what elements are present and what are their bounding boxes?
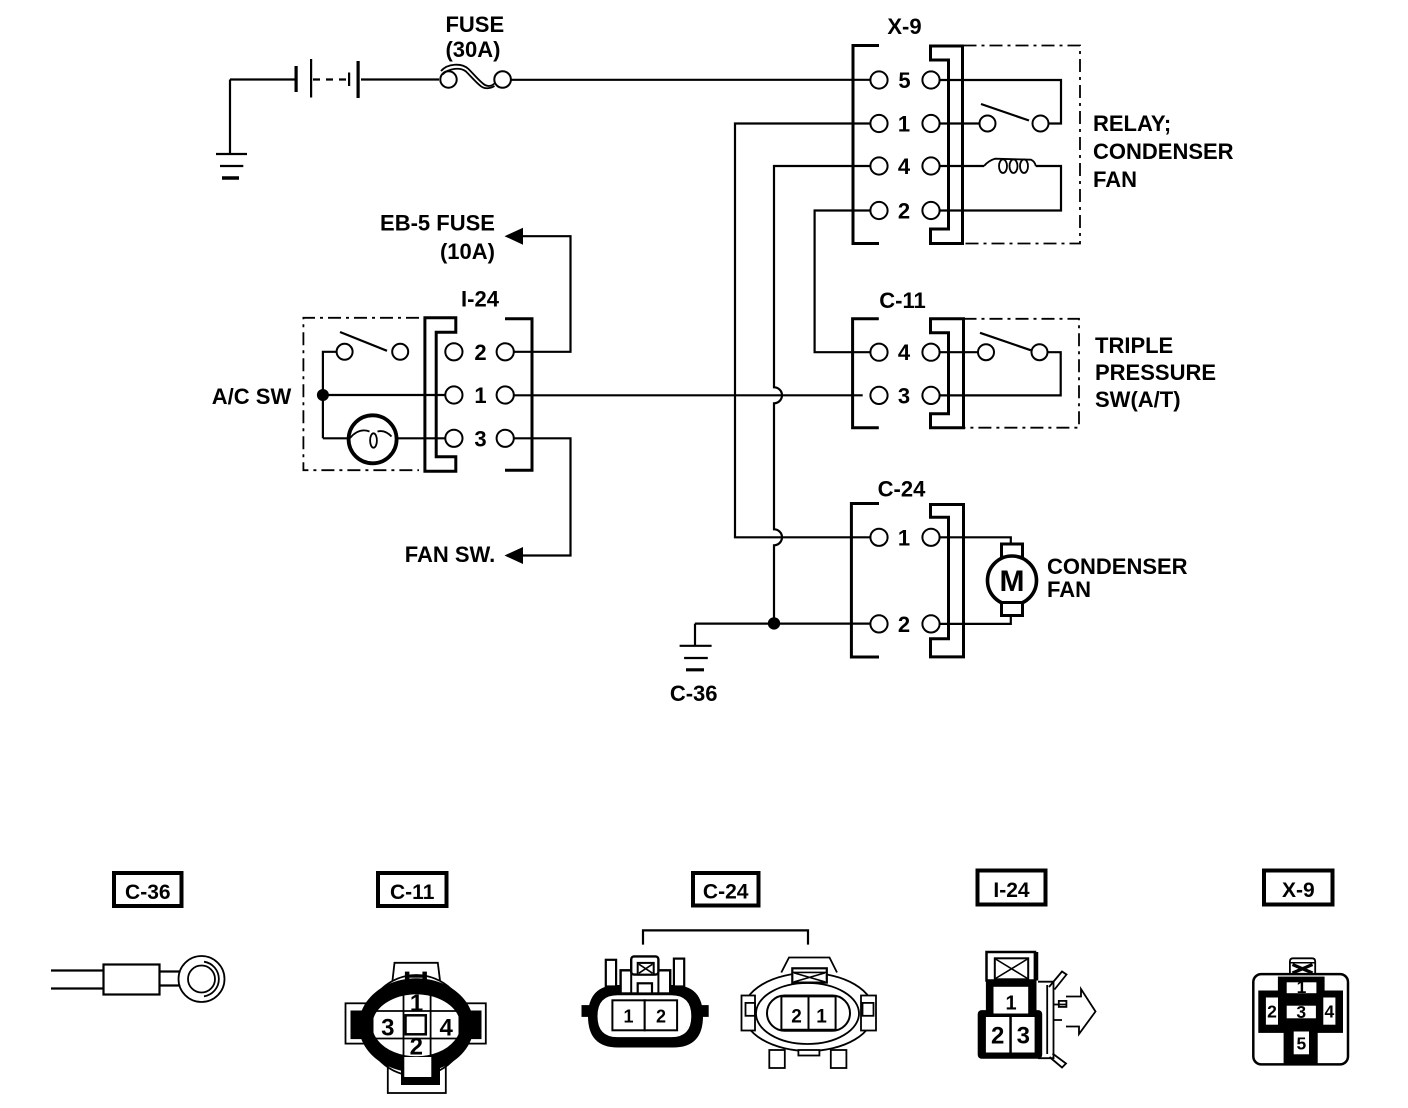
wire relay pin1 to switch — [940, 122, 979, 124]
C-24 female connector face — [582, 956, 709, 1047]
arrow FAN SW — [505, 547, 524, 564]
C-11 connector face — [346, 963, 486, 1093]
svg-text:2: 2 — [1267, 1002, 1277, 1022]
connector C-24 female bracket — [851, 504, 879, 658]
junction node C-36 — [768, 617, 780, 629]
text CONDENSER FAN — [1047, 554, 1188, 602]
I-24 female bracket — [425, 318, 456, 471]
A/C SW box dash-dot — [303, 318, 419, 470]
svg-text:(10A): (10A) — [440, 239, 495, 264]
motor bottom terminal — [1002, 603, 1023, 616]
svg-text:TRIPLE: TRIPLE — [1095, 333, 1173, 358]
svg-text:RELAY;: RELAY; — [1093, 111, 1171, 136]
svg-text:CONDENSER: CONDENSER — [1047, 554, 1188, 579]
C-24 label box — [693, 873, 759, 906]
C-24 male connector face — [742, 958, 877, 1069]
svg-text:4: 4 — [898, 340, 911, 365]
wire X-9 pin2 to C-11 pin4 — [815, 211, 871, 353]
wire I-24 pin1 to C-11 pin3 — [514, 394, 863, 396]
connector C-11 male bracket — [931, 319, 964, 428]
wire ground to C-24 pin2 — [695, 622, 870, 624]
relay coil — [984, 159, 1036, 173]
svg-text:1: 1 — [1297, 977, 1307, 997]
svg-text:C-36: C-36 — [125, 881, 171, 904]
wire bus to lamp — [323, 437, 349, 439]
svg-text:2: 2 — [474, 340, 486, 365]
pressure switch box dash-dot — [964, 319, 1080, 428]
pressure switch contact right — [1032, 344, 1048, 360]
A/C switch contact left — [337, 344, 353, 360]
wire lamp to I-24 pin3 — [397, 437, 446, 439]
svg-text:CONDENSER: CONDENSER — [1093, 139, 1234, 164]
X-9 connector face — [1253, 958, 1348, 1064]
wire A/C switch to left bus — [323, 352, 337, 439]
C-11 pin 3 — [870, 383, 939, 408]
wire C-24 pin2 to motor — [940, 617, 1011, 624]
junction node A/C SW — [317, 389, 329, 401]
I-24 connector face — [978, 952, 1096, 1068]
I-24 pin 3 — [445, 426, 514, 451]
svg-text:2: 2 — [991, 1023, 1004, 1050]
svg-text:3: 3 — [1017, 1023, 1030, 1050]
connector X-9 female bracket — [853, 46, 879, 244]
X-9 pin 4 — [870, 154, 939, 179]
I-24 male bracket — [505, 319, 532, 470]
wire I-24 pin3 to FAN SW — [514, 438, 571, 555]
wire fuse to X-9 pin 5 — [511, 79, 871, 81]
svg-text:3: 3 — [474, 426, 486, 451]
svg-text:1: 1 — [1005, 993, 1016, 1015]
connector C-24 male bracket — [931, 505, 964, 657]
ground battery — [216, 80, 247, 179]
I-24 label box — [978, 871, 1046, 905]
condenser fan motor M — [988, 556, 1037, 605]
svg-text:1: 1 — [816, 1007, 827, 1028]
svg-text:4: 4 — [898, 154, 911, 179]
X-9 pin 1 — [870, 112, 939, 137]
connector C-11 female bracket — [853, 319, 879, 428]
X-9 label box — [1264, 871, 1333, 905]
svg-text:C-11: C-11 — [390, 881, 435, 904]
fuse FUSE 30A — [440, 65, 511, 89]
wire node to I-24 pin1 — [323, 394, 446, 396]
C-11 label box — [378, 873, 447, 906]
text TRIPLE PRESSURE SW(A/T) — [1095, 333, 1216, 412]
svg-text:EB-5 FUSE: EB-5 FUSE — [380, 211, 495, 236]
svg-text:PRESSURE: PRESSURE — [1095, 360, 1216, 385]
X-9 pin 2 — [870, 199, 939, 224]
relay switch blade — [981, 104, 1029, 121]
battery B1 — [295, 59, 360, 98]
wire I-24 pin2 to EB-5 fuse — [514, 236, 571, 352]
svg-text:3: 3 — [898, 383, 910, 408]
relay switch contact left — [980, 116, 996, 132]
connector X-9 male bracket — [931, 46, 963, 244]
svg-text:1: 1 — [898, 112, 910, 137]
A/C switch blade — [340, 332, 387, 351]
relay box dash-dot — [964, 46, 1081, 244]
C-24 pin 1 — [870, 525, 939, 550]
svg-text:C-24: C-24 — [703, 881, 749, 904]
svg-text:5: 5 — [1297, 1033, 1307, 1053]
wire X-9 pin1 to C-24 pin1 — [735, 124, 870, 538]
svg-text:FAN SW.: FAN SW. — [405, 542, 495, 567]
C-36 ring terminal — [51, 956, 225, 1002]
svg-text:SW(A/T): SW(A/T) — [1095, 387, 1181, 412]
X-9 pin 5 — [870, 68, 939, 93]
pressure switch blade — [980, 333, 1031, 351]
svg-text:1: 1 — [623, 1006, 633, 1026]
svg-text:5: 5 — [898, 68, 910, 93]
wire relay pin4 to coil — [940, 165, 984, 167]
svg-text:3: 3 — [1296, 1002, 1306, 1022]
arrow EB-5 — [505, 228, 524, 245]
A/C switch contact right — [392, 344, 408, 360]
svg-text:2: 2 — [410, 1034, 423, 1061]
svg-text:C-36: C-36 — [670, 681, 718, 706]
lamp A/C indicator — [349, 415, 397, 463]
C-36 label box — [114, 873, 182, 906]
relay switch contact right — [1033, 116, 1049, 132]
svg-text:I-24: I-24 — [461, 287, 500, 312]
svg-text:(30A): (30A) — [445, 37, 500, 62]
wire battery to fuse — [361, 78, 439, 80]
pressure switch contact left — [978, 344, 994, 360]
svg-text:4: 4 — [1325, 1002, 1335, 1022]
svg-text:FAN: FAN — [1093, 167, 1137, 192]
svg-text:FUSE: FUSE — [445, 12, 504, 37]
wire C-24 pin1 to motor — [940, 537, 1011, 544]
svg-text:2: 2 — [898, 612, 910, 637]
svg-text:I-24: I-24 — [993, 879, 1030, 902]
svg-text:3: 3 — [381, 1015, 394, 1042]
svg-text:1: 1 — [898, 525, 910, 550]
svg-text:4: 4 — [440, 1015, 454, 1042]
svg-text:1: 1 — [474, 383, 486, 408]
wire C-11 pin4 to switch — [940, 351, 978, 353]
svg-text:X-9: X-9 — [887, 14, 921, 39]
wire X-9 pin4 to ground junction — [774, 166, 870, 623]
svg-text:C-24: C-24 — [878, 477, 926, 502]
svg-text:2: 2 — [791, 1007, 802, 1028]
C-11 pin 4 — [870, 340, 939, 365]
ground C-36 — [680, 624, 712, 670]
svg-text:FAN: FAN — [1047, 577, 1091, 602]
svg-text:2: 2 — [898, 199, 910, 224]
svg-text:A/C SW: A/C SW — [212, 384, 292, 409]
wire relay coil to pin2 — [940, 166, 1061, 211]
wire relay pin5 to switch contact — [940, 80, 1061, 124]
C-24 bracket line — [643, 930, 808, 944]
svg-text:2: 2 — [656, 1006, 666, 1026]
text RELAY; CONDENSER FAN — [1093, 111, 1234, 192]
svg-text:C-11: C-11 — [879, 288, 925, 313]
wire battery left — [230, 78, 296, 80]
wire switch to C-11 pin3 — [940, 352, 1061, 395]
svg-text:M: M — [1000, 565, 1025, 598]
I-24 pin 2 — [445, 340, 514, 365]
svg-text:1: 1 — [410, 990, 423, 1017]
motor top terminal — [1002, 544, 1023, 557]
I-24 pin 1 — [445, 383, 514, 408]
svg-text:X-9: X-9 — [1282, 879, 1315, 902]
C-24 pin 2 — [870, 612, 939, 637]
